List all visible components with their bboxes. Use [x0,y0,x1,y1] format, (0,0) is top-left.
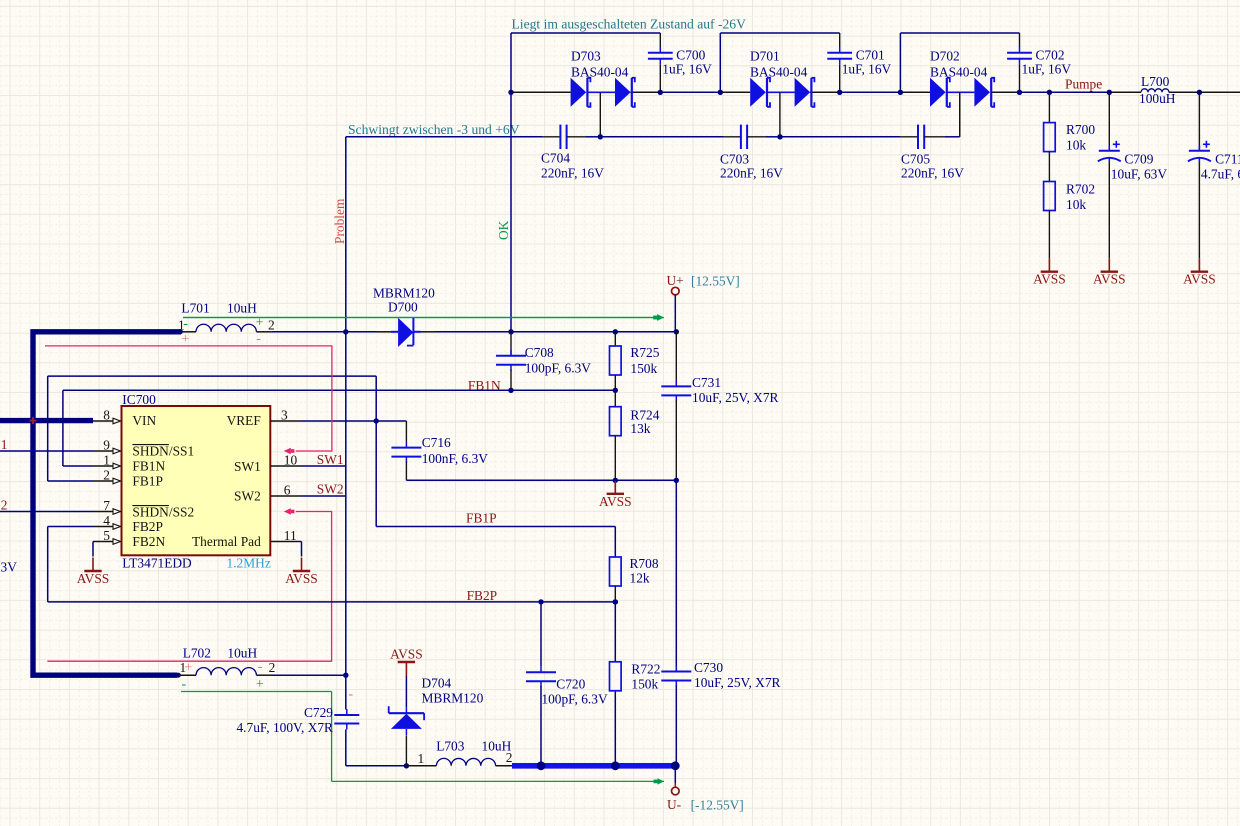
svg-text:R702: R702 [1066,182,1095,197]
svg-text:9: 9 [103,438,110,453]
svg-text:C729: C729 [304,705,333,720]
svg-text:C731: C731 [692,375,721,390]
svg-text:1: 1 [418,751,425,766]
svg-text:D701: D701 [750,49,780,64]
svg-text:BAS40-04: BAS40-04 [930,65,988,80]
svg-text:AVSS: AVSS [285,571,318,586]
svg-text:220nF, 16V: 220nF, 16V [541,166,604,181]
svg-text:3: 3 [281,408,288,423]
svg-text:100uH: 100uH [1139,91,1176,106]
svg-text:10k: 10k [1066,197,1086,212]
svg-text:D700: D700 [388,300,418,315]
svg-text:100nF, 6.3V: 100nF, 6.3V [422,451,489,466]
svg-text:5: 5 [103,528,110,543]
svg-text:LT3471EDD: LT3471EDD [122,556,192,571]
svg-text:1uF, 16V: 1uF, 16V [842,62,892,77]
svg-text:+: + [181,332,189,347]
svg-text:12k: 12k [630,571,650,586]
svg-text:AVSS: AVSS [1183,272,1216,287]
svg-text:7: 7 [103,498,110,513]
svg-text:C702: C702 [1036,48,1065,63]
svg-text:C730: C730 [694,660,723,675]
svg-text:[12.55V]: [12.55V] [691,274,740,289]
svg-text:D703: D703 [571,49,601,64]
svg-text:C703: C703 [720,152,749,167]
svg-text:-: - [256,332,261,347]
svg-text:C704: C704 [541,151,570,166]
svg-text:MBRM120: MBRM120 [422,691,484,706]
svg-text:Thermal Pad: Thermal Pad [192,534,261,549]
svg-text:U-: U- [667,797,681,812]
svg-text:OK: OK [496,220,511,240]
svg-text:SW1: SW1 [234,459,261,474]
svg-text:L703: L703 [436,739,465,754]
svg-text:FB1P: FB1P [132,474,163,489]
svg-text:1uF, 16V: 1uF, 16V [662,62,712,77]
svg-text:2: 2 [506,750,513,765]
svg-text:100pF, 6.3V: 100pF, 6.3V [541,692,608,707]
svg-text:Schwingt zwischen -3 und +6V: Schwingt zwischen -3 und +6V [348,122,520,137]
svg-text:L701: L701 [181,301,209,316]
svg-text:4.7uF, 100V, X7R: 4.7uF, 100V, X7R [236,720,333,735]
svg-text:C720: C720 [556,677,585,692]
svg-text:10uH: 10uH [227,301,257,316]
svg-text:FB2N: FB2N [132,534,165,549]
svg-text:150k: 150k [630,361,657,376]
svg-text:IC700: IC700 [122,392,156,407]
svg-text:-: - [183,317,188,332]
svg-text:BAS40-04: BAS40-04 [571,65,629,80]
svg-text:1: 1 [103,453,110,468]
svg-text:-: - [349,687,354,702]
svg-text:2: 2 [103,468,110,483]
svg-text:C709: C709 [1124,152,1153,167]
svg-text:11: 11 [284,528,297,543]
svg-text:10k: 10k [1066,138,1086,153]
svg-text:10uF, 63V: 10uF, 63V [1111,167,1168,182]
svg-text:220nF, 16V: 220nF, 16V [720,166,783,181]
svg-text:Pumpe: Pumpe [1065,77,1102,92]
svg-text:-: - [182,677,187,692]
svg-text:13k: 13k [630,421,650,436]
svg-text:6: 6 [284,483,291,498]
svg-text:+: + [184,660,192,675]
svg-text:100pF, 6.3V: 100pF, 6.3V [525,361,592,376]
svg-text:[-12.55V]: [-12.55V] [691,798,744,813]
svg-text:R708: R708 [630,556,659,571]
svg-text:3V: 3V [1,560,18,575]
svg-text:L702: L702 [183,646,211,661]
svg-text:4: 4 [103,513,110,528]
svg-text:220nF, 16V: 220nF, 16V [901,166,964,181]
svg-text:150k: 150k [631,677,658,692]
svg-text:SHDN/SS2: SHDN/SS2 [132,505,194,520]
svg-text:BAS40-04: BAS40-04 [750,65,808,80]
svg-text:Liegt im ausgeschalteten Zusta: Liegt im ausgeschalteten Zustand auf -26… [512,17,747,32]
svg-text:C708: C708 [525,345,554,360]
svg-text:D704: D704 [422,676,452,691]
svg-text:10uH: 10uH [227,646,257,661]
svg-text:U+: U+ [667,273,684,288]
svg-text:VREF: VREF [227,413,261,428]
svg-text:1uF, 16V: 1uF, 16V [1022,62,1072,77]
svg-text:MBRM120: MBRM120 [373,286,435,301]
svg-text:C711: C711 [1215,152,1240,167]
svg-text:R725: R725 [630,345,659,360]
svg-text:SW1: SW1 [317,452,344,467]
svg-text:AVSS: AVSS [77,571,110,586]
svg-text:1.2MHz: 1.2MHz [227,556,271,571]
svg-text:SW2: SW2 [317,482,344,497]
svg-text:FB2P: FB2P [467,588,498,603]
svg-text:VIN: VIN [132,413,156,428]
svg-text:4.7uF, 63V: 4.7uF, 63V [1201,167,1240,182]
svg-text:D702: D702 [930,49,960,64]
svg-text:10uF, 25V, X7R: 10uF, 25V, X7R [694,675,781,690]
svg-text:8: 8 [103,408,110,423]
svg-text:AVSS: AVSS [1093,272,1126,287]
svg-text:AVSS: AVSS [390,647,423,662]
svg-text:SS2: SS2 [0,498,8,513]
svg-text:FB2P: FB2P [132,519,163,534]
svg-text:SS1: SS1 [0,437,8,452]
svg-text:FB1P: FB1P [466,510,497,525]
svg-text:AVSS: AVSS [599,494,632,509]
svg-text:FB1N: FB1N [132,459,165,474]
svg-text:10uF, 25V, X7R: 10uF, 25V, X7R [692,390,779,405]
svg-text:L700: L700 [1141,74,1170,89]
svg-text:SW2: SW2 [234,489,261,504]
svg-text:2: 2 [268,318,275,333]
svg-text:Problem: Problem [332,198,347,244]
svg-text:10: 10 [284,453,298,468]
svg-text:2: 2 [269,660,276,675]
svg-text:R722: R722 [631,662,660,677]
svg-text:C716: C716 [422,435,451,450]
svg-text:C700: C700 [676,48,705,63]
svg-text:C705: C705 [901,152,930,167]
svg-text:R700: R700 [1066,122,1095,137]
svg-text:SHDN/SS1: SHDN/SS1 [132,444,194,459]
svg-text:AVSS: AVSS [1033,272,1066,287]
svg-text:+: + [256,677,264,692]
svg-text:C701: C701 [856,48,885,63]
